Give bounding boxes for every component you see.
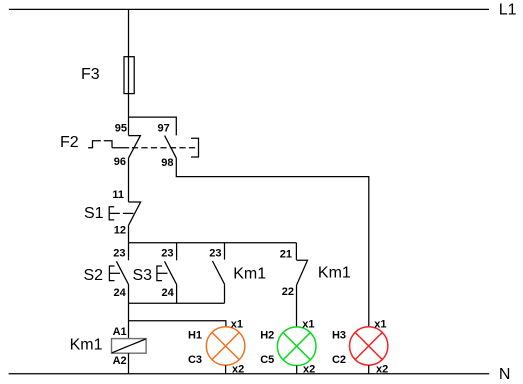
svg-text:x1: x1: [231, 318, 243, 330]
svg-text:98: 98: [161, 157, 173, 169]
svg-text:x2: x2: [376, 363, 388, 375]
svg-text:23: 23: [209, 248, 221, 260]
wire from 98 to lamp H3: [176, 158, 368, 327]
svg-text:23: 23: [113, 248, 125, 260]
wire branch to contact 97: [129, 117, 177, 135]
wire bus above parallel contacts: [129, 242, 297, 244]
wire lamp H1 to N: [225, 365, 227, 373]
wire 22 to lamp H2: [296, 285, 298, 327]
svg-text:96: 96: [114, 156, 126, 168]
svg-text:F2: F2: [60, 134, 79, 151]
svg-text:A2: A2: [113, 355, 127, 367]
svg-text:x1: x1: [374, 318, 386, 330]
svg-text:x1: x1: [302, 318, 314, 330]
pushbutton actuator: [157, 266, 162, 281]
svg-text:A1: A1: [113, 326, 127, 338]
wire lamp H2 to N: [296, 366, 298, 374]
svg-text:S2: S2: [84, 267, 104, 284]
svg-text:S3: S3: [133, 267, 153, 284]
fuse F3: [81, 57, 134, 94]
wire from 96 to S1: [128, 158, 130, 202]
lamp H2 (green): [277, 327, 316, 366]
svg-text:Km1: Km1: [70, 336, 103, 353]
wire lamp H3 to N: [368, 365, 370, 374]
svg-text:H1: H1: [188, 330, 202, 342]
wire node to lamp H1: [129, 321, 226, 327]
overload relay F2 trip mechanism: [60, 134, 199, 157]
wire bus below parallel contacts: [129, 302, 225, 304]
svg-text:S1: S1: [84, 205, 104, 222]
svg-text:C2: C2: [332, 354, 346, 366]
svg-text:95: 95: [115, 122, 127, 134]
contact Km1 NO auxiliary 23-24: [209, 243, 266, 304]
dashed mechanical link: [112, 147, 129, 149]
switch S2 (NO pushbutton 23-24): [84, 243, 129, 304]
lamp H3 (red): [350, 327, 388, 365]
wire N rail: [9, 373, 490, 375]
contact Km1 NC 21-22: [280, 243, 351, 327]
svg-text:21: 21: [280, 249, 292, 261]
svg-text:97: 97: [158, 122, 170, 134]
svg-text:N: N: [499, 366, 511, 383]
wire from bus down to coil node: [128, 303, 130, 338]
wire from L1 rail down through fuse to contact 95: [128, 9, 130, 135]
svg-text:22: 22: [282, 286, 294, 298]
switch S1 (NC pushbutton 11-12): [84, 189, 141, 236]
contact F2 97-98 (NO overload contact): [158, 122, 177, 169]
pushbutton actuator: [109, 266, 114, 281]
svg-text:H3: H3: [332, 330, 346, 342]
wire L1 rail: [9, 8, 489, 10]
svg-text:Km1: Km1: [318, 265, 351, 282]
svg-text:11: 11: [112, 189, 124, 201]
svg-text:24: 24: [114, 287, 127, 299]
pushbutton actuator: [109, 207, 114, 220]
svg-text:23: 23: [161, 248, 173, 260]
svg-text:F3: F3: [81, 66, 100, 83]
svg-text:12: 12: [114, 225, 126, 237]
lamp H1 (orange): [206, 327, 245, 366]
svg-text:C3: C3: [188, 354, 202, 366]
svg-text:Km1: Km1: [233, 265, 266, 282]
wire from 12 to bus: [128, 225, 130, 243]
svg-text:H2: H2: [260, 330, 274, 342]
contact F2 95-96 (NC overload contact): [114, 122, 141, 168]
switch S3 (NO pushbutton 23-24): [133, 243, 177, 304]
svg-text:C5: C5: [260, 354, 274, 366]
svg-text:x2: x2: [303, 363, 315, 375]
svg-text:L1: L1: [499, 2, 517, 19]
svg-text:24: 24: [162, 287, 175, 299]
svg-text:x2: x2: [232, 363, 244, 375]
bracket: [191, 138, 199, 157]
coil Km1: [70, 326, 147, 374]
